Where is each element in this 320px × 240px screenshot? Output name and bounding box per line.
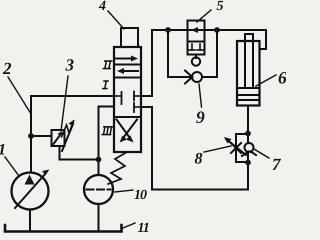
valve 5 flow arrow [191,27,198,33]
svg-text:11: 11 [138,221,149,236]
leader 6 [256,75,276,86]
valve V1 pos III crossed arrows [117,120,132,140]
leader 2 [8,77,31,113]
svg-text:6: 6 [278,68,286,88]
leader 11 [123,223,135,228]
valve V1 divider a [114,64,141,66]
label position I [102,81,109,89]
node pump/relief junction [28,133,34,139]
wire filter to tank [98,204,100,231]
leader 10 [115,190,133,192]
node throttle bottom [245,160,251,166]
valve V1 pos I blocked ports right [134,95,141,97]
pump 1 [12,173,49,210]
svg-text:9: 9 [196,107,205,127]
valve V1 divider c [114,116,141,118]
leader 9 [199,84,202,107]
valve V1 divider b [114,77,141,79]
node loop right [214,27,220,33]
node loop left [165,27,171,33]
valve V1 pos I blocked ports left [114,95,122,97]
valve V1 body [114,47,141,152]
valve 5 blocked ports [191,44,193,50]
tank 11 [5,225,122,232]
filter 10 [84,175,113,204]
wire pump1 suction [29,209,31,231]
wire cylinder bottom port [247,106,249,135]
pump 1 variable arrow [15,173,46,208]
valve 5 body [188,21,205,55]
relief valve 3 body [52,130,65,146]
svg-text:8: 8 [195,151,203,168]
wire relief inlet [31,135,51,137]
wire B (valve to throttle) [141,107,248,190]
wire relief drain [60,146,99,160]
wire bypass loop of valve 5 [168,30,217,77]
leader 3 [61,76,68,131]
svg-text:4: 4 [98,0,106,14]
throttle 8 [231,143,241,153]
valve V1 pos II arrow right [116,58,134,60]
valve V1 return spring [108,152,127,184]
svg-text:2: 2 [2,59,12,78]
cylinder 6 piston [237,87,260,89]
leader 5 [197,10,211,22]
check valve 7 [245,143,254,152]
valve V1 pos II arrow left [121,70,138,72]
cylinder 6 rod [244,34,246,88]
svg-text:3: 3 [65,56,75,75]
wire valve T return to filter [99,107,115,176]
relief valve 3 spring [62,121,74,137]
cylinder 6 body [237,41,260,106]
wire line 2 (pump to valve P) [31,96,114,136]
check valve 9 [192,72,202,82]
node throttle top [245,131,251,137]
svg-text:7: 7 [272,155,282,174]
svg-text:1: 1 [0,142,6,159]
wire check 7 line [247,134,249,163]
svg-text:10: 10 [134,188,147,203]
pump 1 flow triangle [25,175,35,185]
label position II [103,61,113,69]
node drain junction [96,157,102,163]
label position III [101,127,113,135]
wire pump1 pressure [30,136,32,173]
throttle 8 adjust arrow [226,139,246,155]
actuator 4 [121,28,138,47]
wire A (valve to cylinder head via valve 5) [141,30,266,96]
relief valve 3 adjust arrow [62,124,73,151]
leader 1 [5,157,19,176]
relief valve 3 flow arrow [54,133,62,144]
valve 5 roller [195,55,197,59]
leader 7 [254,149,269,158]
wire throttle bypass loop [236,134,248,162]
leader 8 [204,146,231,152]
svg-text:5: 5 [217,0,224,14]
leader 4 [108,11,124,29]
